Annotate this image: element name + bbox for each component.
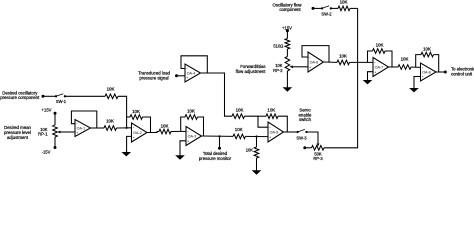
svg-text:10K: 10K <box>187 108 195 113</box>
node: oscillatory flow component input terminal <box>273 2 315 12</box>
svg-text:RP-3: RP-3 <box>313 156 323 161</box>
switch SW-3 <box>296 129 307 140</box>
node: output terminal to electronic control unit <box>444 67 474 77</box>
switch SW-1 <box>55 94 67 105</box>
wire SW-2 to R10 <box>331 7 338 9</box>
svg-text:OA-8: OA-8 <box>422 71 431 75</box>
ground under R7 <box>252 170 262 175</box>
svg-text:+: + <box>422 75 424 79</box>
svg-text:pressure signal: pressure signal <box>139 75 168 80</box>
ground under OA-7 <box>363 79 373 84</box>
svg-text:10K: 10K <box>267 107 275 112</box>
wire OA-7 feedback left vertical <box>368 51 373 62</box>
op-amp OA-6 <box>308 52 324 72</box>
resistor R2 10K <box>104 119 117 131</box>
resistor R14 10K <box>398 57 411 70</box>
svg-text:OA-1: OA-1 <box>77 127 86 131</box>
svg-text:10K: 10K <box>235 127 243 132</box>
wire OA-7 noninverting input to ground <box>368 72 374 80</box>
wire RP-2 to ground <box>286 71 288 87</box>
svg-text:+: + <box>133 136 135 140</box>
svg-text:+: + <box>76 131 78 135</box>
wire junction down to R7 <box>256 137 258 148</box>
svg-text:component: component <box>279 7 301 12</box>
potentiometer RP-2 10K <box>273 57 293 73</box>
wire R7 to ground <box>256 158 258 170</box>
wire OA-2 output to R4 <box>147 132 159 133</box>
svg-text:+: + <box>374 70 376 74</box>
svg-text:10K: 10K <box>161 123 169 128</box>
potentiometer RP-3 50K <box>312 146 325 162</box>
svg-text:+15V: +15V <box>42 108 52 113</box>
wire OA-8 feedback left vertical <box>416 55 421 68</box>
resistor R4 10K <box>159 123 171 133</box>
svg-text:10K: 10K <box>236 108 244 113</box>
resistor R5 10K feedback of OA-3 <box>185 108 198 119</box>
node: +15V supply for RP-2 <box>282 25 292 32</box>
resistor R7 10K to ground <box>246 147 259 158</box>
svg-text:OA-7: OA-7 <box>375 66 384 70</box>
svg-text:RP-1: RP-1 <box>38 132 48 137</box>
wire OA-1 feedback loop <box>71 111 96 128</box>
resistor R8 10K <box>232 108 245 119</box>
wire RP-3 left terminal <box>305 147 312 149</box>
svg-text:control unit: control unit <box>451 72 473 77</box>
wire RP-2 wiper to OA-6 noninverting input <box>292 66 308 68</box>
wire input terminal to SW-2 <box>313 7 322 9</box>
wire OA-3 noninverting input to ground <box>180 141 186 156</box>
svg-text:10K: 10K <box>401 57 409 62</box>
resistor R12 10K <box>337 53 350 64</box>
resistor R13 10K feedback of OA-7 <box>373 42 386 53</box>
ground under OA-2 <box>122 151 132 156</box>
resistor R11 510 ohm <box>273 39 289 50</box>
wire R6 to OA-5 noninverting input <box>246 135 269 137</box>
resistor R10 10K <box>338 0 350 11</box>
wire RP-3 to OA-7 summing node <box>324 8 358 147</box>
wire OA-3 feedback left vertical <box>181 117 185 131</box>
annotation: servo enable switch <box>299 108 313 123</box>
svg-text:10K: 10K <box>423 47 431 52</box>
wire OA-2 feedback to output <box>143 117 151 133</box>
node: desired oscillatory pressure component input terminal <box>0 90 44 100</box>
svg-text:OA-2: OA-2 <box>133 131 142 135</box>
wire SW-3 to RP-3 wiper <box>307 132 320 147</box>
svg-text:RP-2: RP-2 <box>273 68 283 73</box>
svg-text:switch: switch <box>299 117 312 122</box>
node junction SW-1 path and OA-1 path <box>126 127 128 129</box>
svg-text:+: + <box>187 139 189 143</box>
wire R4 to OA-3 inverting input <box>171 130 186 132</box>
wire R10 to summing node vertical <box>350 7 358 9</box>
resistor R3 10K feedback of OA-2 <box>130 109 143 119</box>
svg-text:OA-6: OA-6 <box>310 61 319 65</box>
wire R12 to OA-7 inverting input <box>350 61 374 63</box>
wire OA-5 output to SW-3 <box>284 131 298 133</box>
node: total desired pressure monitor terminal <box>199 135 232 161</box>
ground under OA-3 <box>175 155 185 160</box>
annotation: desired mean pressure level adjustment <box>4 125 31 140</box>
svg-text:+: + <box>186 76 188 80</box>
svg-text:SW-1: SW-1 <box>56 99 67 104</box>
op-amp OA-5 <box>268 122 284 142</box>
svg-text:pressure component: pressure component <box>0 95 40 100</box>
wire R2 to OA-2 inverting input <box>117 127 132 129</box>
svg-text:flow adjustment: flow adjustment <box>236 69 267 74</box>
wire OA-5 feedback stub <box>258 115 266 117</box>
wire OA-7 feedback to output <box>385 51 392 67</box>
wire OA-6 output to R12 <box>324 61 337 63</box>
switch SW-2 <box>321 6 332 16</box>
node: RP-3 left terminal <box>303 146 306 149</box>
svg-text:10K: 10K <box>107 86 115 91</box>
resistor R9 10K feedback of OA-5 <box>266 107 278 118</box>
wire R1 down to OA-2 inverting node <box>118 96 127 128</box>
op-amp OA-3 <box>186 127 202 146</box>
svg-text:10K: 10K <box>106 119 114 124</box>
wire RP-1 wiper to OA-1 noninverting input <box>60 131 75 133</box>
wire SW-1 to R1 <box>65 95 105 97</box>
node junction at OA-5 noninverting input <box>255 135 257 137</box>
resistor R15 10K feedback of OA-8 <box>421 47 434 57</box>
op-amp OA-8 <box>421 63 437 81</box>
svg-text:10K: 10K <box>246 147 254 152</box>
annotation: forward/bias flow adjustment <box>236 64 267 74</box>
svg-text:10K: 10K <box>340 0 348 5</box>
svg-text:510Ω: 510Ω <box>273 44 283 49</box>
wire +15V to RP-1 <box>54 113 56 125</box>
wire OA-7 output to R14 <box>389 66 399 68</box>
ground under RP-2 <box>283 87 293 92</box>
svg-text:OA-3: OA-3 <box>188 135 197 139</box>
wire OA-1 output to R2 <box>90 127 105 129</box>
resistor R6 10K <box>233 127 246 139</box>
svg-text:10K: 10K <box>132 109 140 114</box>
svg-text:+: + <box>309 66 311 70</box>
wire OA-4 output down to R8 <box>201 73 233 116</box>
svg-text:OA-4: OA-4 <box>187 72 196 76</box>
svg-text:10K: 10K <box>376 42 384 47</box>
potentiometer RP-1 10K <box>38 125 60 137</box>
wire OA-4 feedback loop <box>181 56 207 73</box>
node: transduced load pressure signal input terminal <box>138 71 178 81</box>
wire OA-6 feedback loop <box>302 46 329 62</box>
svg-text:SW-3: SW-3 <box>296 135 307 140</box>
wire R11 to RP-2 <box>286 49 288 57</box>
wire OA-8 feedback to output <box>434 55 439 72</box>
op-amp OA-7 <box>373 58 389 77</box>
resistor R1 10K <box>105 86 118 98</box>
wire OA-2 noninverting input to ground <box>127 136 132 152</box>
svg-text:10K: 10K <box>339 53 347 58</box>
wire +15V to R11 <box>286 31 288 39</box>
svg-text:OA-5: OA-5 <box>270 131 279 135</box>
wire OA-8 output to output terminal <box>436 71 445 73</box>
wire input terminal to OA-4 <box>177 75 186 77</box>
svg-text:pressure monitor: pressure monitor <box>199 156 232 161</box>
node: -15V supply for RP-1 <box>42 146 57 154</box>
wire OA-3 feedback to output <box>198 117 204 136</box>
wire OA-2 feedback stub <box>127 116 130 118</box>
wire RP-1 to -15V <box>54 137 56 148</box>
ground under OA-8 <box>409 87 419 92</box>
wire R8 to OA-5 inverting input <box>245 116 269 127</box>
op-amp OA-2 <box>132 123 148 142</box>
wire OA-5 feedback to output <box>278 116 287 132</box>
wire OA-8 noninverting input to ground <box>414 77 421 89</box>
op-amp OA-1 <box>75 120 91 137</box>
wire R14 to OA-8 inverting input <box>411 66 421 68</box>
svg-text:SW-2: SW-2 <box>321 11 332 16</box>
wire input terminal to SW-1 <box>43 95 56 97</box>
svg-text:+: + <box>269 136 271 140</box>
svg-text:-15V: -15V <box>42 149 51 154</box>
svg-text:adjustment: adjustment <box>7 135 29 140</box>
op-amp OA-4 <box>185 64 201 82</box>
node: +15V supply for RP-1 <box>42 108 57 115</box>
wire OA-3 output to R6 <box>202 135 234 137</box>
